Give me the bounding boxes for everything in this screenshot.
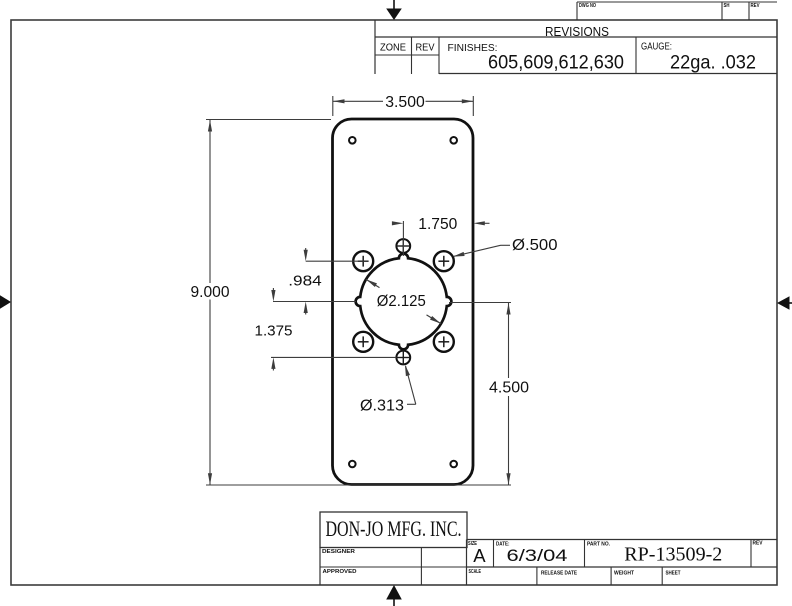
svg-text:REV: REV	[751, 3, 760, 9]
svg-text:APPROVED: APPROVED	[323, 569, 357, 575]
svg-text:SH: SH	[724, 3, 730, 9]
svg-text:.984: .984	[288, 272, 322, 289]
svg-text:REV: REV	[416, 42, 435, 54]
svg-text:RP-13509-2: RP-13509-2	[624, 544, 722, 566]
svg-text:REV: REV	[753, 540, 763, 546]
svg-text:GAUGE:: GAUGE:	[641, 42, 672, 53]
svg-text:4.500: 4.500	[489, 380, 529, 397]
svg-text:Ø2.125: Ø2.125	[377, 293, 426, 310]
svg-text:Ø.313: Ø.313	[360, 398, 404, 415]
svg-text:1.375: 1.375	[255, 323, 293, 340]
svg-text:DWG NO: DWG NO	[579, 3, 597, 9]
svg-text:SCALE: SCALE	[469, 569, 482, 575]
svg-text:22ga. .032: 22ga. .032	[670, 53, 756, 74]
svg-text:A: A	[473, 545, 486, 566]
svg-text:Ø.500: Ø.500	[512, 237, 558, 254]
svg-text:1.750: 1.750	[418, 216, 457, 233]
svg-text:WEIGHT: WEIGHT	[614, 571, 635, 577]
svg-text:605,609,612,630: 605,609,612,630	[488, 53, 624, 74]
svg-text:REVISIONS: REVISIONS	[545, 24, 609, 39]
svg-text:DON-JO MFG. INC.: DON-JO MFG. INC.	[326, 516, 462, 541]
svg-text:RELEASE DATE: RELEASE DATE	[541, 571, 577, 577]
svg-text:DESIGNER: DESIGNER	[322, 549, 355, 555]
svg-text:9.000: 9.000	[191, 284, 230, 301]
svg-text:ZONE: ZONE	[380, 42, 406, 54]
svg-text:6/3/04: 6/3/04	[507, 546, 568, 565]
svg-text:3.500: 3.500	[385, 94, 425, 111]
svg-text:SHEET: SHEET	[666, 571, 682, 577]
svg-text:PART NO.: PART NO.	[587, 541, 610, 547]
